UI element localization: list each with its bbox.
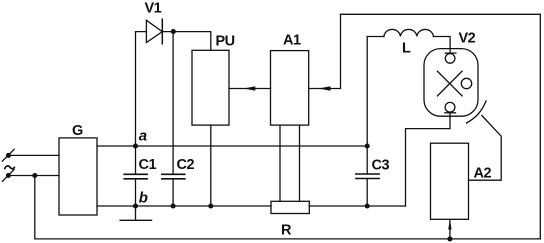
svg-text:A1: A1 [283, 32, 301, 48]
svg-text:A2: A2 [474, 165, 492, 181]
svg-text:R: R [281, 223, 292, 239]
svg-text:C1: C1 [139, 157, 157, 173]
svg-text:V2: V2 [459, 31, 476, 47]
svg-text:b: b [139, 190, 148, 207]
svg-text:a: a [139, 127, 147, 144]
svg-text:L: L [402, 40, 411, 56]
svg-text:C3: C3 [372, 157, 390, 173]
svg-text:V1: V1 [145, 1, 162, 17]
svg-text:PU: PU [216, 33, 235, 49]
svg-text:C2: C2 [177, 157, 195, 173]
svg-text:G: G [72, 123, 83, 139]
